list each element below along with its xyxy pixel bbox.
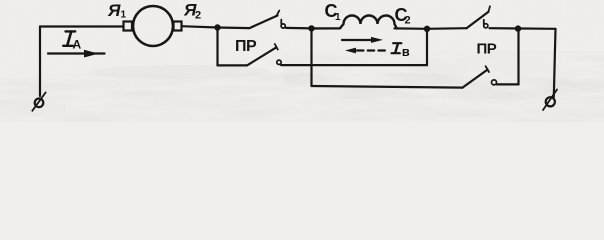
svg-text:в: в xyxy=(402,44,410,59)
svg-text:A: A xyxy=(73,38,82,52)
svg-text:ПР: ПР xyxy=(477,41,497,58)
svg-text:Я: Я xyxy=(107,1,121,20)
svg-text:2: 2 xyxy=(195,10,201,22)
svg-text:2: 2 xyxy=(405,15,411,27)
svg-text:1: 1 xyxy=(335,12,341,23)
svg-text:ПР: ПР xyxy=(235,38,257,55)
svg-text:1: 1 xyxy=(121,10,127,21)
